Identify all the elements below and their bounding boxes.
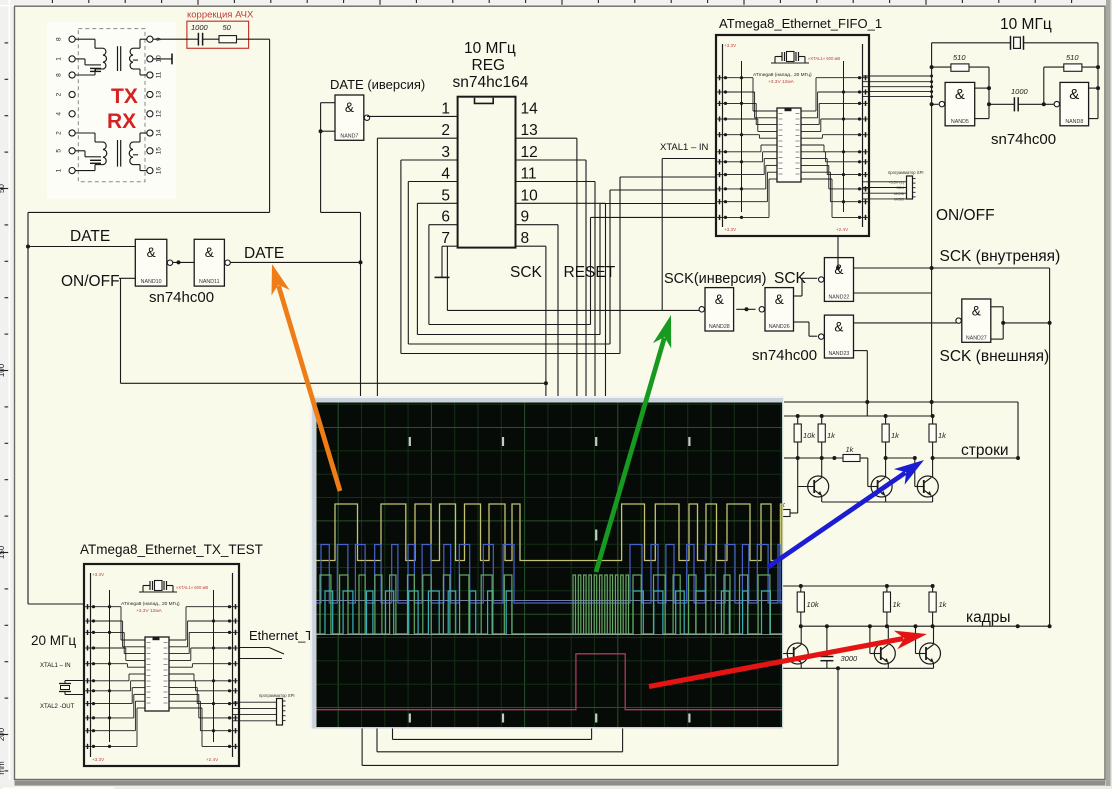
svg-text:«XTAL1» 600 мВ: «XTAL1» 600 мВ	[808, 56, 840, 61]
svg-text:12: 12	[521, 144, 538, 161]
svg-text:&: &	[147, 245, 156, 260]
svg-text:2: 2	[56, 92, 63, 96]
svg-text:&: &	[955, 86, 965, 103]
svg-text:2: 2	[441, 122, 450, 139]
svg-text:DATE: DATE	[70, 228, 110, 245]
svg-text:sn74hc164: sn74hc164	[453, 74, 529, 91]
svg-text:8: 8	[521, 230, 530, 247]
svg-text:MOSI: MOSI	[894, 192, 904, 196]
svg-text:1: 1	[56, 57, 63, 61]
svg-text:16: 16	[156, 167, 163, 175]
svg-text:100: 100	[0, 363, 6, 377]
svg-text:10: 10	[521, 187, 539, 204]
svg-text:5: 5	[56, 149, 63, 153]
svg-text:&: &	[715, 292, 724, 307]
svg-text:1000: 1000	[1011, 87, 1029, 96]
svg-text:коррекция АЧХ: коррекция АЧХ	[187, 10, 254, 21]
svg-text:1k: 1k	[827, 431, 836, 440]
svg-text:&: &	[775, 292, 784, 307]
svg-text:510: 510	[1066, 53, 1079, 62]
svg-text:SCK(инверсия): SCK(инверсия)	[664, 271, 766, 287]
svg-text:11: 11	[156, 71, 163, 78]
svg-text:10k: 10k	[803, 431, 816, 440]
svg-text:12: 12	[156, 110, 163, 118]
svg-text:SCK: SCK	[510, 264, 543, 281]
svg-text:NAND5: NAND5	[951, 119, 969, 125]
svg-text:NAND8: NAND8	[1065, 119, 1083, 125]
svg-text:ATmega8 (налад., 20 МГц): ATmega8 (налад., 20 МГц)	[121, 601, 180, 607]
svg-text:строки: строки	[961, 442, 1009, 459]
svg-text:&: &	[1069, 86, 1079, 103]
svg-text:1k: 1k	[938, 431, 947, 440]
svg-text:3: 3	[441, 144, 450, 161]
svg-text:1k: 1k	[846, 445, 855, 454]
svg-text:RESET: RESET	[564, 264, 616, 281]
svg-text:6: 6	[441, 209, 450, 226]
svg-text:200: 200	[0, 727, 6, 741]
svg-text:sn74hc00: sn74hc00	[149, 289, 214, 306]
svg-text:8: 8	[56, 73, 63, 77]
svg-text:XTAL1 – IN: XTAL1 – IN	[40, 663, 71, 669]
svg-text:15: 15	[156, 147, 163, 155]
svg-text:NAND22: NAND22	[828, 294, 849, 300]
svg-text:8: 8	[56, 37, 63, 41]
svg-text:13: 13	[521, 122, 538, 139]
svg-text:14: 14	[156, 129, 163, 137]
svg-text:14: 14	[521, 100, 539, 117]
svg-text:50: 50	[223, 23, 232, 32]
svg-text:1k: 1k	[893, 600, 902, 609]
svg-text:NAND7: NAND7	[340, 133, 358, 139]
svg-text:Ethernet_T: Ethernet_T	[249, 628, 313, 643]
svg-text:+3.3V: +3.3V	[724, 227, 737, 232]
svg-text:+3.3V: +3.3V	[92, 572, 105, 577]
svg-text:RX: RX	[107, 110, 136, 133]
svg-text:1k: 1k	[939, 600, 948, 609]
svg-text:SCK (внешняя): SCK (внешняя)	[940, 348, 1050, 365]
svg-text:&: &	[834, 319, 843, 334]
svg-text:mm: mm	[0, 761, 6, 775]
svg-text:NAND26: NAND26	[769, 324, 790, 330]
svg-text:TX: TX	[111, 85, 138, 108]
svg-text:+3.3V 12мА: +3.3V 12мА	[136, 608, 163, 614]
svg-text:1000: 1000	[191, 23, 209, 32]
svg-text:10 МГц: 10 МГц	[464, 40, 516, 57]
svg-text:+3.3V 12мА: +3.3V 12мА	[768, 79, 795, 85]
svg-text:510: 510	[953, 53, 966, 62]
svg-text:ON/OFF: ON/OFF	[936, 207, 995, 224]
svg-text:REG: REG	[472, 57, 506, 74]
svg-text:«XTAL1» 600 мВ: «XTAL1» 600 мВ	[176, 585, 208, 590]
svg-text:&: &	[345, 100, 354, 115]
svg-text:3000: 3000	[841, 654, 859, 663]
svg-text:4: 4	[441, 166, 450, 183]
svg-text:2: 2	[56, 131, 63, 135]
svg-text:MISO: MISO	[894, 198, 904, 202]
svg-text:4: 4	[56, 112, 63, 116]
svg-text:1k: 1k	[891, 431, 900, 440]
svg-text:+2.4V: +2.4V	[206, 757, 219, 762]
svg-text:10k: 10k	[807, 600, 820, 609]
svg-text:NAND10: NAND10	[141, 279, 162, 285]
svg-text:NAND28: NAND28	[709, 324, 730, 330]
svg-text:1: 1	[56, 168, 63, 172]
svg-text:ON/OFF: ON/OFF	[61, 273, 120, 290]
svg-text:DATE (иверсия): DATE (иверсия)	[330, 77, 425, 92]
svg-text:5: 5	[441, 187, 450, 204]
svg-text:13: 13	[156, 91, 163, 99]
svg-text:DATE: DATE	[244, 245, 284, 262]
svg-text:ATmega8_Ethernet_TX_TEST: ATmega8_Ethernet_TX_TEST	[80, 542, 263, 557]
svg-text:+3.3V: +3.3V	[724, 43, 737, 48]
svg-text:+3,3V (1): +3,3V (1)	[888, 181, 904, 185]
svg-text:кадры: кадры	[966, 609, 1011, 626]
svg-text:программатор SPI: программатор SPI	[888, 170, 924, 175]
svg-text:программатор SPI: программатор SPI	[259, 693, 295, 698]
svg-text:&: &	[972, 304, 981, 319]
svg-text:11: 11	[521, 166, 537, 183]
svg-text:+2.4V: +2.4V	[836, 227, 849, 232]
svg-text:XTAL2 -OUT: XTAL2 -OUT	[40, 704, 75, 710]
svg-text:50: 50	[0, 184, 6, 193]
svg-text:+3.3V: +3.3V	[92, 757, 105, 762]
svg-text:&: &	[205, 245, 214, 260]
svg-text:9: 9	[521, 209, 530, 226]
svg-text:1: 1	[441, 100, 450, 117]
svg-text:7: 7	[441, 230, 450, 247]
svg-text:NAND27: NAND27	[966, 335, 987, 341]
svg-text:SCK: SCK	[896, 186, 904, 190]
svg-text:NAND23: NAND23	[828, 351, 849, 357]
svg-text:150: 150	[0, 545, 6, 559]
svg-text:XTAL1 – IN: XTAL1 – IN	[660, 142, 709, 153]
svg-text:ATmega8 (налад., 20 МГц): ATmega8 (налад., 20 МГц)	[753, 72, 812, 78]
svg-text:sn74hc00: sn74hc00	[752, 347, 817, 364]
svg-text:sn74hc00: sn74hc00	[991, 131, 1056, 148]
svg-text:SCK (внутреняя): SCK (внутреняя)	[940, 248, 1061, 265]
svg-text:ATmega8_Ethernet_FIFO_1: ATmega8_Ethernet_FIFO_1	[719, 16, 882, 31]
svg-text:20 МГц: 20 МГц	[31, 633, 76, 648]
svg-text:10 МГц: 10 МГц	[1000, 16, 1052, 33]
svg-text:NAND11: NAND11	[199, 279, 220, 285]
